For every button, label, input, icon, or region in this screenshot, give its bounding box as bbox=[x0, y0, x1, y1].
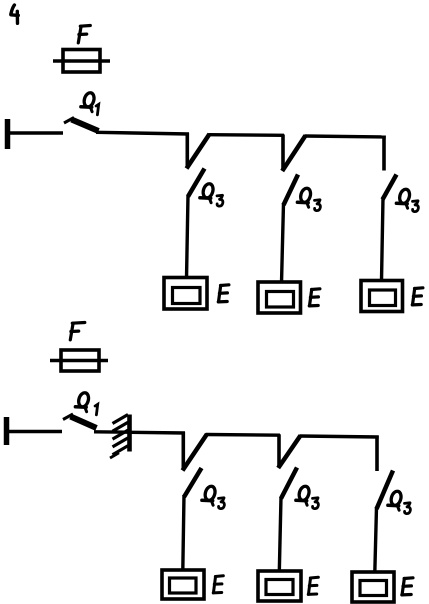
branch 2 tap V (bottom) bbox=[278, 434, 300, 468]
label Q3 branch 2 (bottom) bbox=[296, 485, 318, 509]
label Q3 branch 3 (top) bbox=[396, 188, 418, 212]
wire branch 2 down to lamp (bottom) bbox=[279, 497, 281, 572]
switch Q3 blade branch 2 (bottom) bbox=[281, 468, 297, 499]
switch Q3 blade branch 3 (bottom) bbox=[377, 471, 394, 510]
switch Q3 blade branch 2 (top) bbox=[284, 175, 299, 206]
label E branch 2 (top) bbox=[309, 289, 320, 306]
bus wire segment Q1 to branch 1 (top) bbox=[96, 132, 189, 134]
branch 2 tap V (top) bbox=[282, 135, 305, 172]
lamp E branch 1 (top) bbox=[164, 278, 207, 310]
terminal (bottom left) bbox=[4, 417, 10, 445]
label E branch 1 (bottom) bbox=[213, 576, 223, 593]
lamp E branch 2 (top) bbox=[258, 282, 301, 313]
wire terminal to switch Q1 (bottom) bbox=[7, 430, 62, 433]
wire branch 2 down to lamp (top) bbox=[282, 203, 284, 283]
lamp E branch 3 (bottom) bbox=[352, 572, 394, 602]
label F of top fuse bbox=[78, 26, 90, 43]
label Q1 (top) bbox=[81, 92, 99, 115]
switch Q1 (bottom) bbox=[63, 414, 97, 428]
bus corner down to branch 3 (top) bbox=[382, 136, 386, 171]
switch Q3 blade branch 1 (bottom) bbox=[184, 468, 202, 497]
wire switch Q1 to hatch bar (bottom) bbox=[94, 430, 130, 434]
bus corner down to branch 3 (bottom) bbox=[375, 436, 379, 472]
lamp E branch 2 (bottom) bbox=[258, 571, 301, 601]
bus wire segment branch2 to corner (bottom) bbox=[300, 436, 379, 437]
bus wire segment hatch bar to branch 1 (bottom) bbox=[131, 431, 185, 435]
branch 1 tap V (top) bbox=[187, 133, 210, 169]
terminal (top left) bbox=[5, 119, 11, 149]
switch Q1 (top) bbox=[64, 118, 99, 132]
switch Q3 blade branch 3 (top) bbox=[383, 175, 397, 200]
label Q3 branch 1 (top) bbox=[200, 183, 223, 207]
label Q1 (bottom) bbox=[75, 392, 97, 415]
label E branch 3 (top) bbox=[412, 288, 423, 305]
wire terminal to switch Q1 (top) bbox=[8, 131, 63, 134]
figure number 4 bbox=[11, 5, 18, 23]
lamp E branch 1 (bottom) bbox=[162, 570, 204, 599]
wire branch 1 down to lamp (top) bbox=[187, 195, 189, 279]
label Q3 branch 2 (top) bbox=[297, 187, 320, 211]
wire branch 3 down to lamp (bottom) bbox=[375, 507, 377, 573]
label E branch 1 (top) bbox=[218, 285, 229, 302]
wire branch 1 down to lamp (bottom) bbox=[183, 495, 184, 571]
label Q3 branch 1 (bottom) bbox=[202, 485, 224, 509]
bus wire segment branch1 to branch2 (top) bbox=[209, 133, 285, 137]
label Q3 branch 3 (bottom) bbox=[388, 490, 410, 514]
bus wire segment branch2 to corner (top) bbox=[305, 136, 386, 137]
wire branch 3 down to lamp (top) bbox=[382, 198, 384, 281]
fuse F (bottom) bbox=[50, 350, 108, 371]
switch Q3 blade branch 1 (top) bbox=[188, 169, 205, 197]
label E branch 2 (bottom) bbox=[308, 577, 318, 594]
lamp E branch 3 (top) bbox=[361, 281, 403, 312]
hatched actuator bar at Q1 (bottom) bbox=[110, 415, 130, 459]
fuse F (top) bbox=[53, 50, 110, 73]
label F of bottom fuse bbox=[70, 323, 85, 340]
bus wire segment branch1 to branch2 (bottom) bbox=[206, 433, 280, 437]
label E branch 3 (bottom) bbox=[402, 578, 413, 595]
branch 1 tap V (bottom) bbox=[183, 432, 208, 471]
